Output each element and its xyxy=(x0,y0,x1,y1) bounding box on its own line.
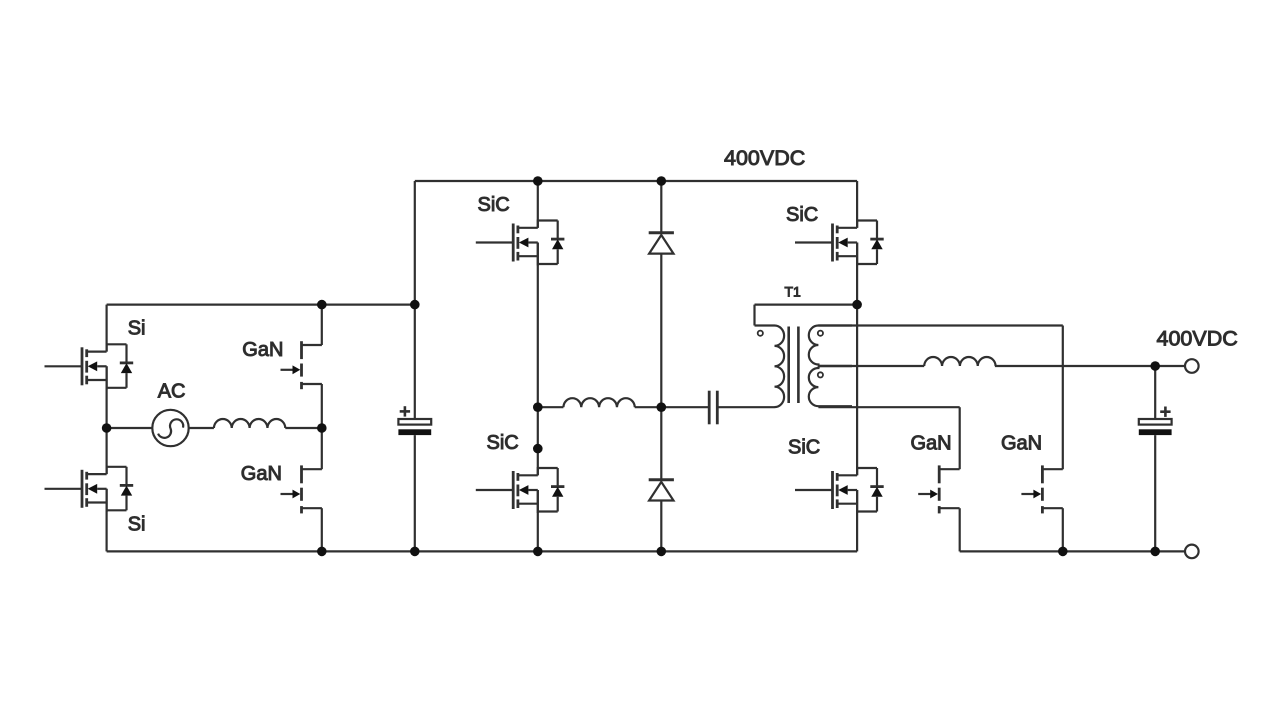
svg-text:Si: Si xyxy=(128,318,146,340)
svg-text:SiC: SiC xyxy=(786,204,818,226)
svg-text:SiC: SiC xyxy=(487,432,519,454)
svg-text:AC: AC xyxy=(158,380,186,402)
svg-text:GaN: GaN xyxy=(911,433,952,455)
svg-text:T1: T1 xyxy=(785,284,802,300)
svg-text:400VDC: 400VDC xyxy=(724,146,805,170)
svg-text:GaN: GaN xyxy=(1001,433,1042,455)
svg-text:GaN: GaN xyxy=(241,463,282,485)
svg-text:400VDC: 400VDC xyxy=(1157,327,1238,351)
svg-text:SiC: SiC xyxy=(788,437,820,459)
svg-text:Si: Si xyxy=(128,514,146,536)
svg-text:GaN: GaN xyxy=(242,339,283,361)
svg-text:SiC: SiC xyxy=(478,194,510,216)
